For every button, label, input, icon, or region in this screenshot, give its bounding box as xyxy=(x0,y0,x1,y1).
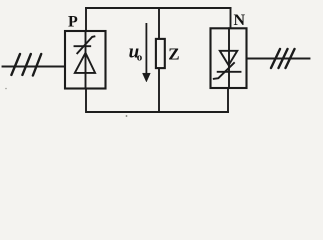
wire top rail xyxy=(86,7,231,9)
breakdown slash with tail xyxy=(77,36,94,53)
paper speck xyxy=(126,115,128,117)
suppressor box N xyxy=(211,28,247,88)
svg-text:P: P xyxy=(68,14,78,31)
svg-text:Z: Z xyxy=(168,45,179,64)
paper speck xyxy=(5,88,7,90)
suppressor diode symbol in N box xyxy=(214,28,241,88)
wire middle branch lower xyxy=(158,68,160,112)
interference slashes left xyxy=(11,54,41,76)
voltage arrow u0 shaft xyxy=(145,23,147,74)
axis wire through N box xyxy=(228,28,230,88)
diode triangle (anode up) xyxy=(75,53,95,73)
wire left branch lower xyxy=(85,89,87,113)
wire bottom rail xyxy=(87,111,229,113)
diode triangle (cathode down) xyxy=(220,51,238,65)
breakdown slash with tail xyxy=(214,63,234,79)
cathode bar xyxy=(218,71,241,73)
paper background xyxy=(0,0,323,121)
interference slashes right xyxy=(271,49,295,68)
wire left branch upper xyxy=(85,8,87,31)
impedance Z rectangle xyxy=(156,39,165,68)
cathode bar xyxy=(75,45,91,47)
wire right lead xyxy=(247,58,310,60)
suppressor diode symbol in P box xyxy=(75,31,96,89)
suppressor box P xyxy=(65,31,106,89)
svg-text:o: o xyxy=(137,52,143,64)
wire right branch lower xyxy=(227,88,229,112)
voltage arrow u0 head xyxy=(143,73,151,82)
wire right branch upper xyxy=(230,8,232,28)
axis wire through P box xyxy=(85,31,87,89)
svg-text:N: N xyxy=(234,12,246,29)
wire left lead xyxy=(3,66,66,68)
wire middle branch upper xyxy=(158,8,160,39)
